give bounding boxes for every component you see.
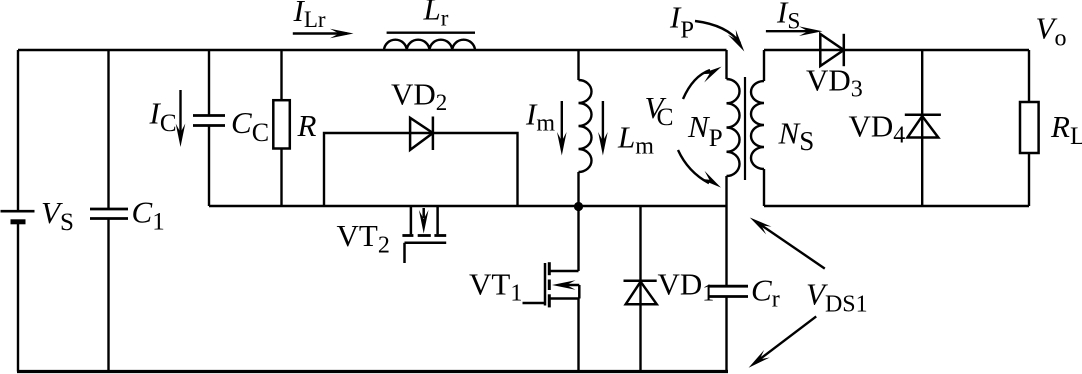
wire Cr branch upper <box>725 206 727 286</box>
wire secondary bottom rail <box>764 205 1029 207</box>
wire left rail lower <box>17 222 19 372</box>
capacitor CC <box>193 116 225 126</box>
inductor Lr <box>384 33 475 50</box>
wire secondary top rail <box>764 49 1029 51</box>
svg-text:VD4: VD4 <box>849 109 906 149</box>
capacitor Cr <box>708 286 748 296</box>
wire left rail upper <box>17 50 19 211</box>
arrow Im <box>557 101 567 156</box>
svg-text:CC: CC <box>231 105 269 147</box>
svg-text:Vo: Vo <box>1036 11 1067 52</box>
svg-text:R: R <box>297 108 317 143</box>
node dot at VT1 drain <box>574 202 583 211</box>
wire CC branch upper <box>208 50 210 116</box>
svg-text:RL: RL <box>1050 109 1082 150</box>
wire mid rail <box>209 205 727 207</box>
diode VD1 <box>624 281 657 305</box>
svg-text:ILr: ILr <box>293 0 326 32</box>
wire Lm bottom to node <box>577 172 579 271</box>
transformer core <box>744 77 746 180</box>
svg-text:IC: IC <box>149 96 177 138</box>
arrow IS <box>766 26 823 36</box>
svg-text:NS: NS <box>778 115 815 155</box>
svg-text:IP: IP <box>669 0 694 43</box>
battery VS <box>1 211 35 222</box>
svg-text:VD3: VD3 <box>806 63 863 103</box>
svg-text:Cr: Cr <box>751 273 780 313</box>
capacitor C1 <box>90 209 128 219</box>
arrow VC lower <box>678 150 724 191</box>
arrow VDS1 upper <box>747 214 825 269</box>
wire top rail <box>18 49 727 51</box>
wire VT1 source to bottom <box>577 299 579 372</box>
transformer secondary NS <box>751 50 764 206</box>
mosfet VT2 <box>402 206 446 263</box>
wire VD2 loop right <box>433 133 518 206</box>
svg-text:VD1: VD1 <box>658 266 715 306</box>
wire R branch lower <box>280 149 282 207</box>
arrow Lm current <box>598 101 608 156</box>
diode VD2 <box>410 117 433 151</box>
wire C1 branch lower <box>107 219 109 372</box>
arrow IC <box>176 90 186 147</box>
arrow VC upper <box>683 63 724 99</box>
wire bottom rail <box>17 370 728 373</box>
mosfet VT1 <box>523 262 580 307</box>
svg-text:IS: IS <box>776 0 800 34</box>
wire VD4 branch <box>921 50 923 206</box>
svg-text:Lr: Lr <box>423 0 449 31</box>
svg-text:NP: NP <box>687 109 723 152</box>
arrow IP <box>695 21 748 54</box>
wire R branch upper <box>280 50 282 100</box>
svg-text:Lm: Lm <box>617 120 654 160</box>
wire Lm top <box>577 50 579 80</box>
wire VD1 branch <box>639 206 641 372</box>
wire C1 branch upper <box>107 50 109 209</box>
svg-text:VDS1: VDS1 <box>806 277 868 318</box>
diode VD4 <box>905 115 941 138</box>
wire RL branch lower <box>1028 153 1030 206</box>
svg-text:VT2: VT2 <box>337 218 390 259</box>
svg-text:VS: VS <box>41 195 74 236</box>
resistor R <box>273 100 290 148</box>
svg-text:VD2: VD2 <box>391 77 447 116</box>
resistor RL <box>1020 102 1039 153</box>
svg-text:Im: Im <box>525 97 555 137</box>
wire CC branch lower <box>208 126 210 207</box>
svg-text:VT1: VT1 <box>469 266 522 306</box>
svg-text:VC: VC <box>645 90 674 131</box>
svg-text:C1: C1 <box>132 195 165 236</box>
diode VD3 <box>820 34 844 66</box>
wire VD2 loop left <box>324 133 410 206</box>
wire RL branch upper <box>1028 50 1030 102</box>
arrow ILr <box>293 29 354 39</box>
transformer primary NP <box>727 50 740 206</box>
wire Cr branch lower <box>725 297 727 372</box>
arrow VDS1 lower <box>746 316 816 371</box>
inductor Lm <box>579 80 592 172</box>
